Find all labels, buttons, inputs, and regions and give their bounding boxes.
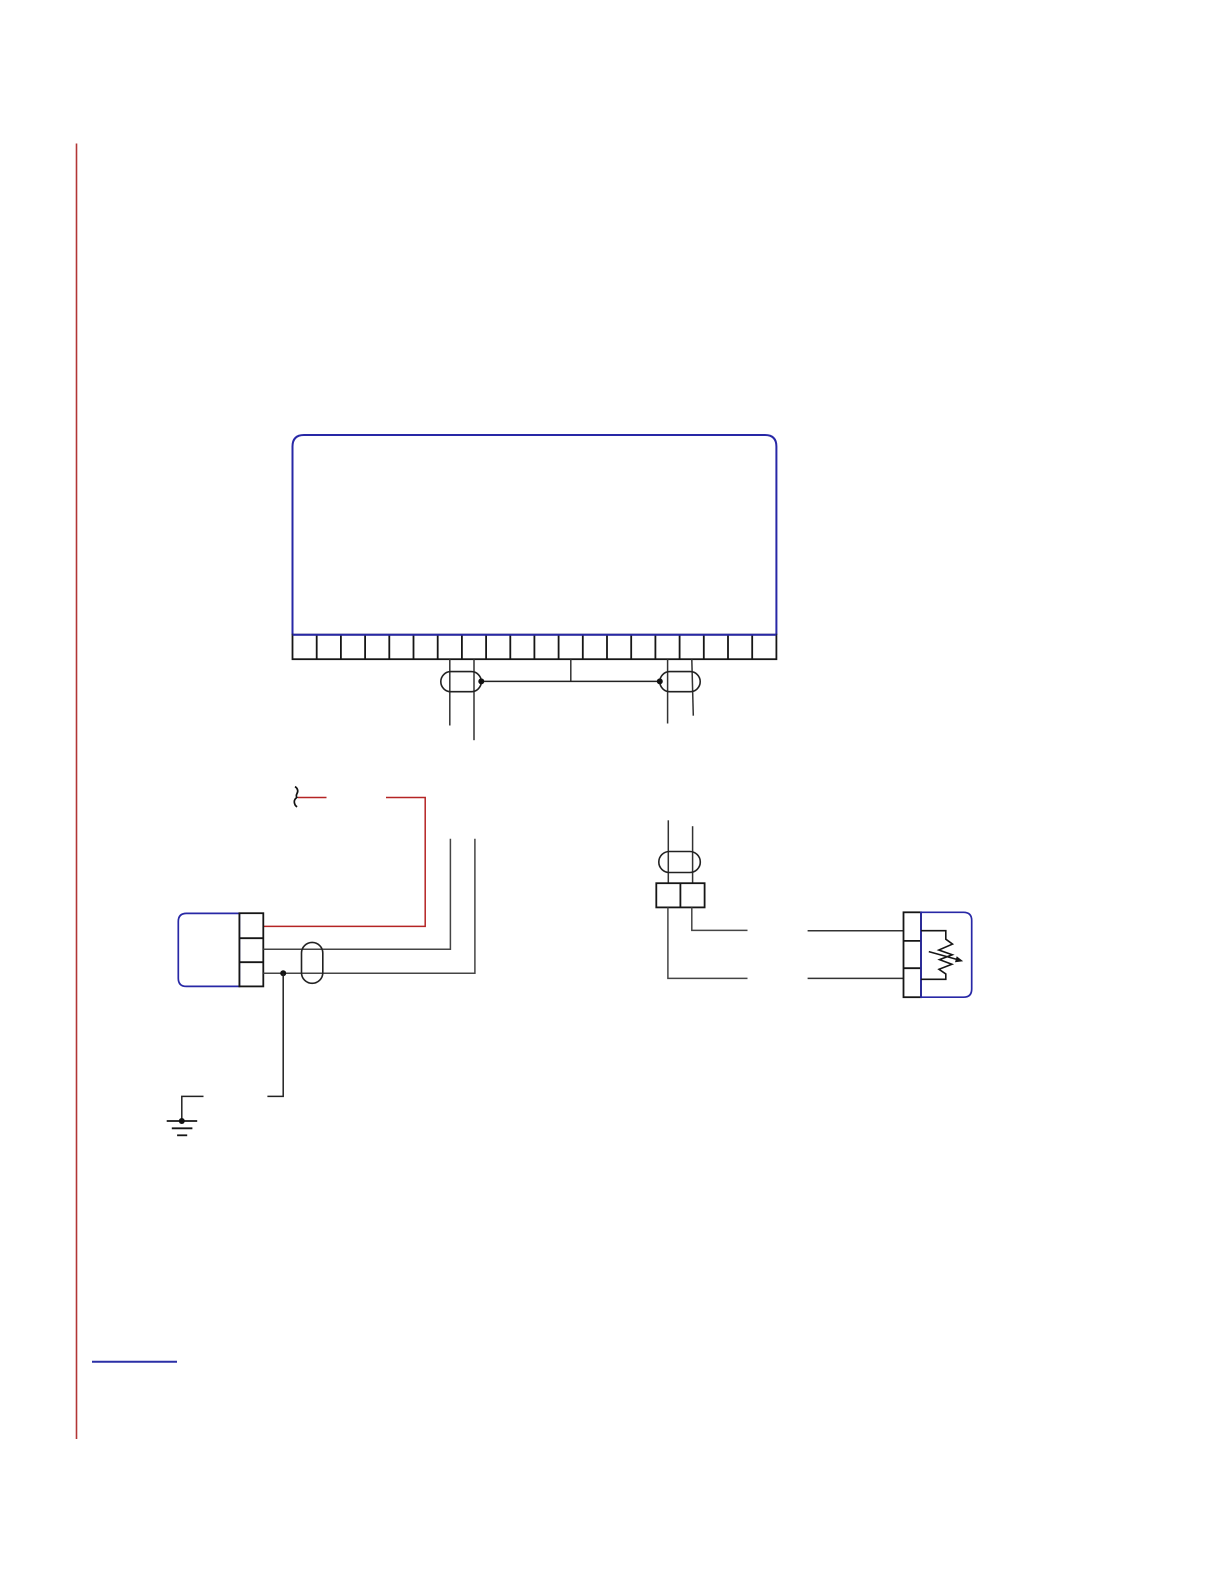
ground symbol bbox=[167, 1121, 198, 1135]
connector oval B bbox=[660, 672, 700, 692]
connector C1 (2 pins) bbox=[656, 883, 704, 907]
wire pin12 stub bbox=[570, 659, 572, 681]
sensor body (blue) bbox=[921, 912, 972, 997]
wire into connector C1 left bbox=[667, 820, 669, 883]
connector oval A bbox=[441, 672, 482, 692]
junction dot on oval B bbox=[657, 678, 663, 684]
sensor terminal column (3 pins) bbox=[904, 912, 922, 997]
terminal strip of U1 (20 pins) bbox=[293, 635, 777, 660]
wire break squiggle bbox=[294, 787, 297, 807]
wire C1 pin2 bbox=[692, 907, 748, 930]
variable resistor R1 bbox=[921, 931, 953, 980]
junction dot ground branch bbox=[280, 970, 286, 976]
red page margin rule bbox=[76, 144, 78, 1440]
wire relay pin3 bbox=[263, 839, 475, 974]
adjustment arrow of R1 bbox=[929, 952, 963, 963]
harness oval on C1 wires bbox=[659, 852, 701, 873]
link wire between connector ovals bbox=[481, 680, 660, 682]
harness oval on relay wires bbox=[302, 942, 323, 983]
ground lead bbox=[182, 1096, 204, 1121]
relay terminal column (3 pins) bbox=[239, 913, 263, 986]
bottom edge of U1 over terminal strip bbox=[293, 634, 777, 636]
red wire segment b bbox=[263, 798, 425, 927]
blue footer rule bbox=[92, 1361, 177, 1363]
wire to sensor lower bbox=[808, 977, 904, 979]
wire into connector C1 right bbox=[692, 826, 694, 883]
wire pin7 down bbox=[449, 659, 451, 725]
wire pin8 down bbox=[473, 659, 475, 740]
wire pin17 down bbox=[692, 659, 694, 716]
junction dot on oval A bbox=[478, 678, 484, 684]
wire to ground bbox=[267, 973, 283, 1096]
ECU connector box U1 bbox=[293, 435, 777, 635]
red wire segment a bbox=[298, 797, 327, 799]
junction dot at ground bbox=[179, 1118, 185, 1124]
wire relay pin2 bbox=[263, 839, 450, 950]
wire pin16 down bbox=[667, 659, 669, 723]
relay body (blue) bbox=[178, 913, 239, 986]
wire to sensor upper bbox=[808, 930, 904, 932]
wire C1 pin1 bbox=[668, 907, 748, 978]
